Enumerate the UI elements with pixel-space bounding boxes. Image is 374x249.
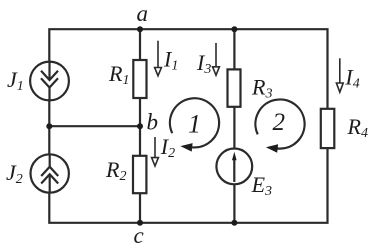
svg-text:E3: E3 — [251, 172, 272, 199]
svg-text:I3: I3 — [196, 50, 211, 77]
svg-text:I1: I1 — [163, 47, 178, 74]
svg-text:b: b — [147, 110, 159, 135]
svg-text:2: 2 — [273, 109, 286, 136]
svg-text:a: a — [137, 1, 149, 26]
svg-text:R3: R3 — [251, 74, 272, 101]
svg-text:R1: R1 — [108, 61, 129, 88]
svg-text:I2: I2 — [160, 134, 175, 161]
svg-text:1: 1 — [188, 109, 201, 138]
svg-text:R4: R4 — [347, 114, 368, 141]
svg-text:J2: J2 — [6, 160, 23, 187]
svg-text:c: c — [134, 223, 144, 248]
svg-text:R2: R2 — [105, 157, 126, 184]
svg-text:J1: J1 — [7, 67, 24, 94]
svg-text:I4: I4 — [344, 64, 359, 91]
